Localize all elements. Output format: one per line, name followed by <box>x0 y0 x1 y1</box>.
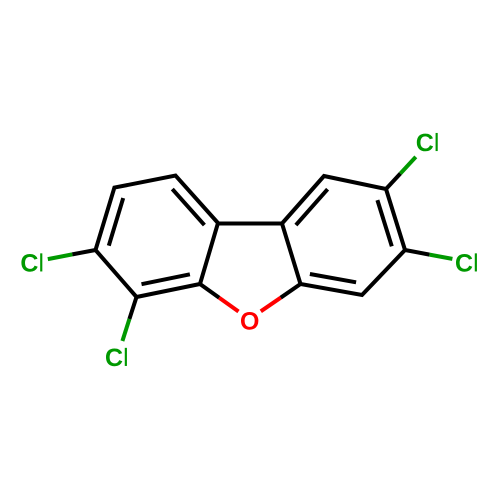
C-Cl bond top-right (green half) <box>400 157 415 174</box>
C-Cl bond top-right (black half) <box>386 174 400 190</box>
C-O bond left (black half) <box>200 284 219 298</box>
left benzene ring outline <box>96 176 219 298</box>
atom label Cl (bottom-left) <box>106 348 127 366</box>
C-Cl bond bottom-left (green half) <box>122 319 129 341</box>
C-O bond right (black half) <box>281 284 301 298</box>
atom label Cl (right) <box>456 253 477 271</box>
atom label Cl (top-right) <box>417 133 438 151</box>
double bond inner line (right ring, right edge) <box>377 200 391 246</box>
right benzene ring outline <box>282 176 405 295</box>
double bond inner line (left ring, bottom edge) <box>142 274 190 284</box>
wire: central C-C bridge bond <box>218 222 282 226</box>
C-O bond left (red half) <box>219 298 238 312</box>
atom label Cl (left) <box>21 253 42 271</box>
C-Cl bond right (black half) <box>405 250 430 255</box>
double bond inner line (right ring, bottom edge) <box>310 274 356 282</box>
double bond inner line (right ring, upper-left edge) <box>296 189 328 225</box>
C-Cl bond right (green half) <box>430 255 453 259</box>
double bond inner line (left ring, upper-right edge) <box>172 189 204 225</box>
atom label O (furan oxygen) <box>241 312 258 330</box>
C-O bond right (red half) <box>261 298 281 312</box>
C-Cl bond bottom-left (black half) <box>129 297 136 319</box>
C-Cl bond left (black half) <box>72 250 95 254</box>
C-Cl bond left (green half) <box>48 254 73 259</box>
double bond inner line (left ring, left edge) <box>109 198 123 246</box>
